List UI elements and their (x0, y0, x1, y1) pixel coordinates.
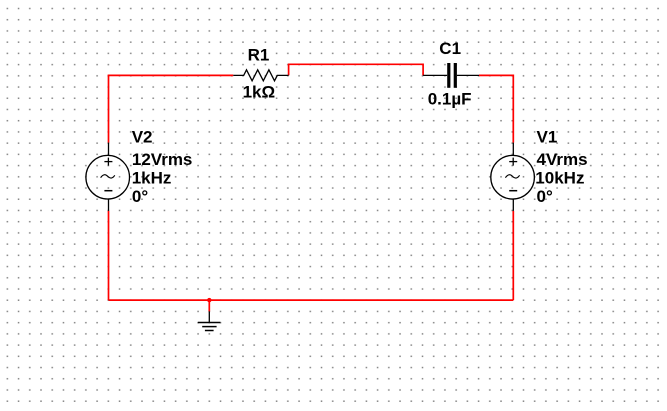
node: junction dot on bottom rail (207, 298, 211, 302)
ground (198, 311, 221, 330)
svg-text:V2: V2 (132, 127, 153, 146)
svg-text:10kHz: 10kHz (535, 168, 584, 187)
wire: bottom rail (109, 299, 514, 301)
svg-text:0°: 0° (132, 187, 148, 206)
capacitor C1 (423, 63, 479, 88)
wire: top-right segment from capacitor C1 right lead to V1 top (479, 75, 513, 142)
AC source V1 (491, 143, 535, 211)
wire: ground stub from bottom rail junction (208, 300, 210, 311)
svg-text:4Vrms: 4Vrms (537, 150, 588, 169)
wire: top-left segment from V2 top to resistor R1 left lead (109, 75, 234, 142)
AC source V2 (86, 143, 130, 211)
svg-text:0.1µF: 0.1µF (428, 89, 472, 108)
wire: left vertical from V2 bottom to bottom rail (108, 211, 110, 300)
svg-text:C1: C1 (439, 39, 461, 58)
resistor R1 (233, 70, 288, 81)
svg-text:12Vrms: 12Vrms (132, 150, 193, 169)
svg-text:R1: R1 (248, 46, 270, 65)
wire: right vertical from V1 bottom to bottom rail (512, 211, 514, 300)
svg-text:V1: V1 (537, 127, 558, 146)
svg-text:1kHz: 1kHz (132, 168, 172, 187)
svg-text:1kΩ: 1kΩ (243, 83, 276, 102)
wire: jog between resistor R1 right lead and capacitor C1 left lead (289, 64, 424, 75)
svg-text:0°: 0° (537, 187, 553, 206)
